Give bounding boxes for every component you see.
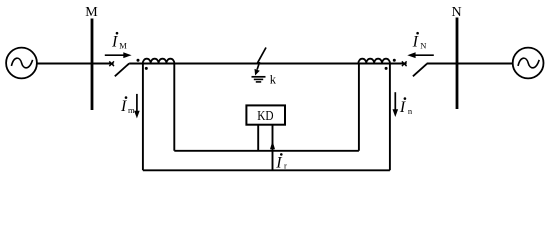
svg-text:I: I	[275, 155, 282, 172]
fault arrow at k	[255, 48, 267, 76]
switch blade (left)	[115, 63, 129, 76]
svg-text:KD: KD	[257, 109, 273, 124]
polarity dot CT2 primary	[393, 59, 396, 62]
svg-text:I: I	[412, 33, 419, 50]
arrow I_M	[105, 52, 132, 58]
generator source M	[6, 48, 37, 79]
generator source N	[513, 48, 544, 79]
polarity dot CT2 secondary	[385, 67, 388, 70]
arrow I_N	[407, 52, 434, 58]
label I_N	[412, 32, 427, 51]
svg-text:r: r	[284, 161, 287, 171]
arrow I_n	[393, 92, 399, 117]
wire: CT1 secondary left (outer)	[142, 64, 144, 171]
polarity dot CT1 secondary	[145, 67, 148, 70]
wire: CT1 secondary right (inner)	[173, 64, 175, 151]
svg-text:N: N	[451, 5, 461, 20]
wire: CT2 secondary left (inner)	[358, 64, 360, 151]
wire: main line between switches	[129, 63, 406, 65]
CT1 coil	[143, 59, 175, 64]
label I_n	[399, 97, 413, 116]
svg-text:I: I	[111, 33, 118, 50]
busbar N	[456, 18, 459, 110]
label I_r	[275, 153, 287, 172]
svg-text:I: I	[120, 98, 127, 115]
svg-text:N: N	[420, 40, 426, 50]
arrow I_m	[134, 94, 140, 119]
wire: CT2 secondary right (outer)	[389, 64, 391, 171]
CT2 coil	[358, 59, 390, 64]
svg-text:M: M	[119, 40, 127, 50]
svg-text:I: I	[399, 99, 406, 116]
wire: generator M to breaker	[37, 63, 114, 65]
wire: KD left terminal	[257, 125, 259, 151]
svg-text:k: k	[270, 73, 277, 87]
arrow I_r	[270, 141, 275, 149]
svg-text:M: M	[85, 5, 98, 20]
ground at fault point	[252, 77, 266, 82]
svg-text:m: m	[128, 105, 135, 115]
wire: outer bottom	[143, 169, 390, 171]
breaker X mark (right)	[402, 61, 407, 66]
breaker X mark (left)	[109, 61, 114, 66]
wire: switch to generator N	[427, 63, 513, 65]
relay KD box	[246, 105, 285, 124]
label I_M	[111, 32, 127, 51]
polarity dot CT1 primary	[137, 59, 140, 62]
wire: inner bottom	[174, 150, 359, 152]
switch blade (right)	[413, 64, 427, 77]
svg-text:n: n	[408, 106, 413, 116]
busbar M	[91, 19, 94, 111]
label I_m	[120, 96, 135, 115]
wire: KD right terminal	[272, 125, 274, 171]
